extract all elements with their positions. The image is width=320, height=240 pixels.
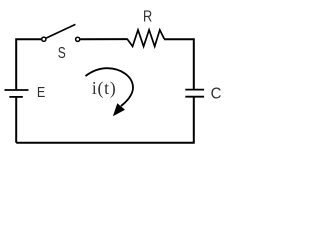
capacitor C top plate	[185, 89, 204, 91]
switch S terminal circle left	[42, 37, 46, 41]
wire resistor to top-right corner and down to capacitor	[164, 39, 194, 89]
current direction arrow arc (clockwise)	[86, 68, 134, 106]
wire from switch to resistor	[80, 38, 127, 40]
svg-text:R: R	[143, 8, 152, 26]
battery E long plate (positive)	[5, 89, 29, 91]
resistor R zigzag	[127, 30, 164, 47]
wire top-left: corner from switch terminal to left rail	[16, 39, 41, 89]
svg-text:S: S	[58, 43, 66, 61]
wire capacitor to bottom-right corner	[16, 97, 194, 143]
battery E short plate (negative)	[9, 96, 22, 98]
svg-text:C: C	[211, 85, 222, 102]
svg-text:i(t): i(t)	[92, 78, 117, 98]
switch S blade (open)	[46, 24, 75, 38]
capacitor C bottom plate	[185, 96, 204, 98]
current arrowhead	[113, 103, 125, 116]
wire bottom-left up to battery	[15, 97, 17, 143]
svg-text:E: E	[37, 83, 45, 100]
switch S terminal circle right	[76, 37, 80, 41]
